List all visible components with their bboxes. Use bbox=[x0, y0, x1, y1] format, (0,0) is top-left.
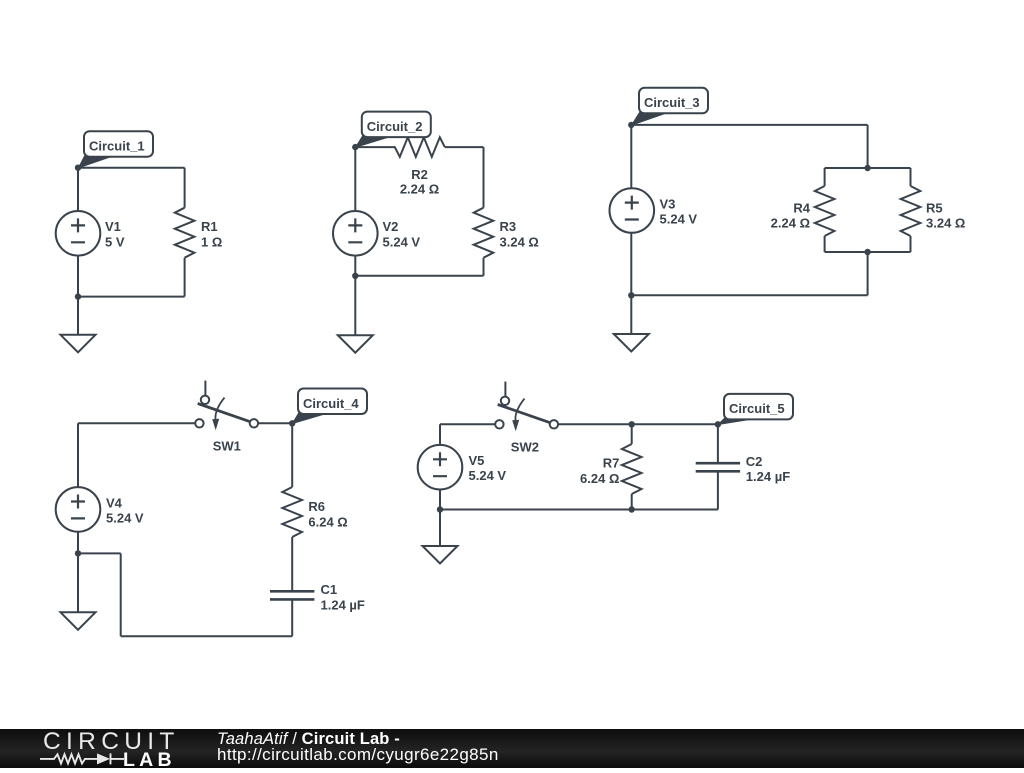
switch SW2 actuator stub bbox=[504, 382, 506, 396]
node circuit 5 C2 top junction bbox=[715, 421, 721, 427]
wire right rail above R1 bbox=[184, 168, 186, 208]
svg-text:5.24 V: 5.24 V bbox=[660, 212, 698, 227]
wire left rail above V3 bbox=[630, 125, 632, 188]
label V5 value bbox=[469, 453, 507, 483]
label R2 value bbox=[400, 167, 439, 197]
wire left rail above V2 bbox=[354, 147, 356, 211]
svg-text:R6: R6 bbox=[308, 499, 325, 514]
wire stub above R5 bbox=[910, 168, 912, 186]
label C1 value bbox=[321, 582, 365, 612]
svg-text:5.24 V: 5.24 V bbox=[383, 234, 421, 249]
footer attribution text bbox=[217, 731, 400, 748]
wire left rail below V3 bbox=[630, 233, 632, 296]
voltage source V2 bbox=[333, 211, 378, 256]
ground circuit 5 bbox=[423, 546, 458, 564]
wire ground stem circuit 1 bbox=[77, 297, 79, 335]
wire right rail above R3 bbox=[483, 147, 485, 208]
svg-text:6.24 Ω: 6.24 Ω bbox=[308, 514, 347, 529]
svg-text:2.24 Ω: 2.24 Ω bbox=[400, 182, 439, 197]
wire stub above C2 bbox=[717, 424, 719, 463]
resistor R2 bbox=[395, 137, 445, 157]
label V1 value bbox=[105, 219, 125, 249]
wire left rail below V1 bbox=[77, 256, 79, 297]
node circuit 3 parallel top junction bbox=[864, 165, 870, 171]
label SW2 bbox=[511, 440, 539, 455]
switch SW1 pivot terminal bbox=[201, 396, 209, 404]
label R7 value bbox=[580, 456, 619, 486]
svg-text:3.24 Ω: 3.24 Ω bbox=[926, 216, 965, 231]
svg-text:LAB: LAB bbox=[123, 749, 176, 768]
node circuit 5 R7 bottom junction bbox=[629, 506, 635, 512]
footer bar bbox=[0, 729, 1024, 768]
svg-text:C1: C1 bbox=[321, 582, 338, 597]
wire drop to parallel pair bbox=[867, 125, 869, 168]
node circuit 5 R7 top junction bbox=[629, 421, 635, 427]
node circuit 2 top bbox=[352, 144, 358, 150]
svg-text:6.24 Ω: 6.24 Ω bbox=[580, 471, 619, 486]
svg-text:R2: R2 bbox=[411, 167, 428, 182]
label C2 value bbox=[746, 454, 790, 484]
svg-text:SW2: SW2 bbox=[511, 440, 539, 455]
wire left rail above V1 bbox=[77, 168, 79, 211]
label V3 value bbox=[660, 196, 698, 226]
svg-text:V2: V2 bbox=[383, 219, 399, 234]
net label Circuit_2 callout bbox=[356, 112, 431, 148]
wire switch SW2 to R7 node bbox=[557, 423, 632, 425]
wire stub below R7 bbox=[631, 494, 633, 510]
wire bottom circuit 3 bbox=[631, 294, 867, 296]
wire bottom circuit 2 bbox=[355, 275, 483, 277]
node circuit 1 top bbox=[75, 165, 81, 171]
label SW1 bbox=[213, 439, 241, 454]
switch SW1 right terminal bbox=[250, 419, 258, 427]
capacitor C2 bbox=[696, 463, 740, 471]
wire R6 to C1 bbox=[291, 537, 293, 591]
wire stub above R7 bbox=[631, 424, 633, 444]
wire drop from parallel pair bbox=[867, 252, 869, 295]
net label Circuit_5 callout bbox=[718, 394, 793, 425]
node circuit 3 bottom-left bbox=[628, 292, 634, 298]
voltage source V5 bbox=[418, 445, 463, 490]
node circuit 4 right bbox=[289, 420, 295, 426]
ground circuit 2 bbox=[338, 335, 373, 353]
ground circuit 4 bbox=[61, 612, 96, 630]
switch SW2 right terminal bbox=[550, 420, 558, 428]
circuit 3: wire top bbox=[631, 124, 867, 126]
svg-text:3.24 Ω: 3.24 Ω bbox=[500, 234, 539, 249]
wire left rail below V2 bbox=[354, 256, 356, 276]
svg-text:1.24 µF: 1.24 µF bbox=[746, 469, 790, 484]
wire left rail above V4 bbox=[77, 423, 79, 487]
svg-text:C2: C2 bbox=[746, 454, 763, 469]
wire ground stem circuit 5 bbox=[439, 510, 441, 547]
resistor R6 bbox=[282, 487, 302, 537]
net label Circuit_3 callout bbox=[632, 88, 708, 125]
voltage source V1 bbox=[56, 211, 101, 256]
svg-text:Circuit_3: Circuit_3 bbox=[644, 95, 700, 110]
svg-text:2.24 Ω: 2.24 Ω bbox=[771, 216, 810, 231]
switch SW1 blade bbox=[198, 404, 250, 422]
wire bottom circuit 4 bbox=[121, 635, 293, 637]
resistor R4 bbox=[815, 186, 835, 236]
svg-text:5 V: 5 V bbox=[105, 234, 125, 249]
circuit 1: wire top (node to R1) bbox=[78, 167, 185, 169]
wire right rail below R1 bbox=[184, 258, 186, 297]
wire stub below R4 bbox=[824, 236, 826, 252]
voltage source V4 bbox=[56, 487, 101, 532]
svg-text:Circuit_1: Circuit_1 bbox=[89, 139, 145, 154]
wire stub below R5 bbox=[910, 236, 912, 252]
switch SW1 left terminal bbox=[195, 419, 203, 427]
wire ground stem circuit 3 bbox=[630, 295, 632, 334]
net label Circuit_4 callout bbox=[292, 389, 367, 424]
svg-text:V4: V4 bbox=[106, 495, 123, 510]
svg-text:Circuit_2: Circuit_2 bbox=[367, 119, 423, 134]
svg-text:R1: R1 bbox=[201, 219, 218, 234]
wire switch SW1 to node bbox=[258, 422, 292, 424]
svg-text:V1: V1 bbox=[105, 219, 121, 234]
node circuit 5 bottom-left bbox=[437, 506, 443, 512]
svg-text:V5: V5 bbox=[469, 453, 485, 468]
wire top-right (R2 to corner) bbox=[445, 146, 484, 148]
svg-text:Circuit_5: Circuit_5 bbox=[729, 401, 785, 416]
wire parallel top bar bbox=[825, 167, 911, 169]
label R6 value bbox=[308, 499, 347, 529]
node circuit 3 parallel bottom junction bbox=[864, 249, 870, 255]
wire bottom circuit 5 bbox=[440, 509, 718, 511]
label R4 value bbox=[771, 201, 811, 231]
switch SW1 toggle arrow bbox=[212, 398, 224, 431]
svg-text:R7: R7 bbox=[603, 456, 620, 471]
resistor R5 bbox=[901, 186, 921, 236]
wire left rail below V5 bbox=[439, 489, 441, 509]
wire ground stem circuit 4 bbox=[77, 553, 79, 612]
node circuit 1 bottom bbox=[75, 293, 81, 299]
svg-text:SW1: SW1 bbox=[213, 439, 241, 454]
label R3 value bbox=[500, 219, 539, 249]
svg-text:R5: R5 bbox=[926, 201, 943, 216]
switch SW1 actuator stub bbox=[204, 381, 206, 395]
ground circuit 3 bbox=[614, 334, 649, 352]
resistor R7 bbox=[622, 444, 642, 494]
switch SW2 blade bbox=[498, 405, 550, 423]
capacitor C1 bbox=[270, 591, 314, 599]
circuit 4: wire top-left bbox=[78, 422, 195, 424]
svg-text:1.24 µF: 1.24 µF bbox=[321, 597, 365, 612]
ground circuit 1 bbox=[61, 335, 96, 353]
net label Circuit_1 callout bbox=[79, 131, 154, 168]
svg-text:R4: R4 bbox=[793, 201, 810, 216]
wire R7 node to C2 node bbox=[632, 423, 718, 425]
wire stub above R4 bbox=[824, 168, 826, 186]
node circuit 4 left bbox=[75, 550, 81, 556]
wire right rail above R6 bbox=[291, 423, 293, 487]
resistor R3 bbox=[474, 208, 494, 258]
circuit 2: wire top-left (node to R2) bbox=[355, 146, 395, 148]
wire bottom (R1 to node) bbox=[78, 296, 185, 298]
CircuitLab logo bbox=[40, 729, 190, 768]
switch SW2 left terminal bbox=[495, 420, 503, 428]
switch SW2 pivot terminal bbox=[501, 397, 509, 405]
wire left rail above V5 bbox=[439, 424, 441, 445]
wire right rail below R3 bbox=[483, 258, 485, 276]
wire ground stem circuit 2 bbox=[354, 276, 356, 335]
logo resistor-diode glyph bbox=[40, 753, 124, 764]
voltage source V3 bbox=[610, 188, 655, 233]
wire left rail below V4 bbox=[77, 532, 79, 554]
label V4 value bbox=[106, 495, 144, 525]
label V2 value bbox=[383, 219, 421, 249]
wire riser to node bbox=[78, 552, 121, 554]
svg-text:V3: V3 bbox=[660, 196, 676, 211]
wire parallel bottom bar bbox=[825, 251, 911, 253]
wire stub below C2 bbox=[717, 471, 719, 509]
circuit 5: wire top-left bbox=[440, 423, 495, 425]
svg-text:5.24 V: 5.24 V bbox=[106, 510, 144, 525]
wire C1 to bottom bbox=[291, 599, 293, 636]
node circuit 3 top-left bbox=[628, 122, 634, 128]
node circuit 2 bottom bbox=[352, 273, 358, 279]
svg-text:Circuit_4: Circuit_4 bbox=[303, 396, 359, 411]
svg-text:R3: R3 bbox=[500, 219, 517, 234]
svg-text:5.24 V: 5.24 V bbox=[469, 468, 507, 483]
wire bottom-left riser bbox=[120, 553, 122, 636]
label R5 value bbox=[926, 201, 965, 231]
svg-text:1 Ω: 1 Ω bbox=[201, 234, 222, 249]
switch SW2 toggle arrow bbox=[512, 399, 524, 432]
label R1 value bbox=[201, 219, 222, 249]
resistor R1 bbox=[175, 208, 195, 258]
